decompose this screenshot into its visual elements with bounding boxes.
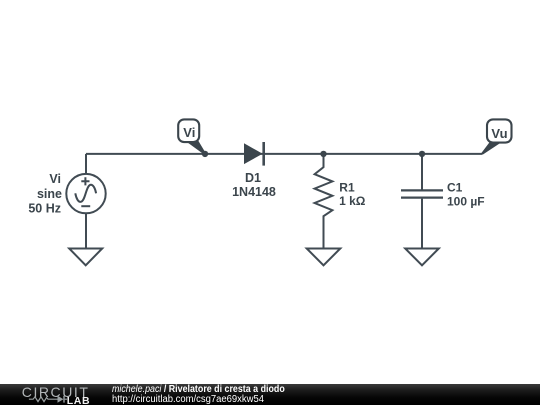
svg-text:1N4148: 1N4148 bbox=[232, 185, 276, 199]
svg-text:Vu: Vu bbox=[491, 126, 507, 141]
svg-text:Vi: Vi bbox=[49, 172, 61, 186]
svg-text:50 Hz: 50 Hz bbox=[28, 202, 61, 216]
svg-text:LAB: LAB bbox=[67, 395, 90, 405]
svg-text:R1: R1 bbox=[339, 180, 355, 194]
svg-text:100 µF: 100 µF bbox=[447, 194, 485, 208]
svg-text:1 kΩ: 1 kΩ bbox=[339, 194, 366, 208]
svg-text:D1: D1 bbox=[245, 171, 261, 185]
svg-text:C1: C1 bbox=[447, 180, 463, 194]
svg-text:sine: sine bbox=[37, 187, 62, 201]
svg-text:Vi: Vi bbox=[183, 125, 195, 140]
